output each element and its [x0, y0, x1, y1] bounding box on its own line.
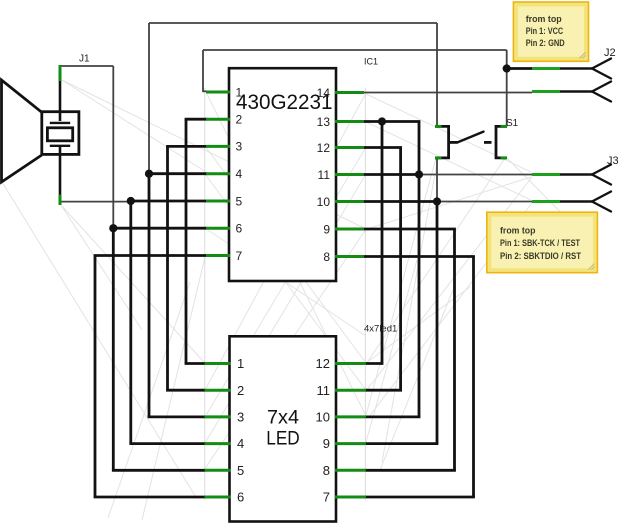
svg-text:7: 7 [236, 249, 243, 263]
svg-text:4: 4 [237, 436, 244, 451]
svg-text:from top: from top [526, 14, 562, 25]
svg-text:6: 6 [236, 222, 243, 236]
svg-text:12: 12 [316, 356, 330, 371]
svg-text:IC1: IC1 [364, 56, 378, 66]
svg-text:10: 10 [317, 195, 331, 209]
svg-text:5: 5 [237, 463, 244, 478]
svg-text:Pin 2: GND: Pin 2: GND [526, 38, 565, 49]
svg-text:8: 8 [323, 463, 330, 478]
svg-text:9: 9 [323, 222, 330, 236]
svg-text:10: 10 [316, 410, 330, 425]
svg-text:8: 8 [323, 250, 330, 264]
svg-text:J1: J1 [79, 54, 90, 65]
svg-text:Pin 1: SBK-TCK / TEST: Pin 1: SBK-TCK / TEST [500, 238, 580, 249]
svg-text:3: 3 [236, 140, 243, 154]
svg-text:J3: J3 [607, 155, 619, 167]
svg-text:430G2231: 430G2231 [236, 91, 333, 114]
svg-text:LED: LED [266, 429, 300, 450]
svg-text:2: 2 [236, 113, 243, 127]
svg-text:7x4: 7x4 [267, 408, 299, 429]
svg-text:4x7led1: 4x7led1 [364, 324, 397, 335]
svg-text:S1: S1 [506, 118, 519, 129]
svg-text:Pin 1: VCC: Pin 1: VCC [526, 26, 564, 37]
svg-text:from top: from top [500, 226, 536, 237]
svg-text:11: 11 [318, 168, 331, 182]
svg-text:J2: J2 [604, 47, 616, 59]
svg-text:5: 5 [236, 194, 243, 208]
svg-text:13: 13 [317, 115, 331, 129]
svg-text:2: 2 [237, 383, 244, 398]
svg-text:7: 7 [323, 490, 330, 505]
svg-text:Pin 2: SBKTDIO / RST: Pin 2: SBKTDIO / RST [500, 251, 581, 262]
svg-text:12: 12 [317, 141, 331, 155]
svg-text:3: 3 [237, 410, 244, 425]
svg-text:11: 11 [317, 383, 331, 398]
svg-text:1: 1 [237, 356, 244, 371]
svg-text:4: 4 [236, 167, 243, 181]
svg-text:6: 6 [237, 490, 244, 505]
svg-text:9: 9 [323, 436, 330, 451]
